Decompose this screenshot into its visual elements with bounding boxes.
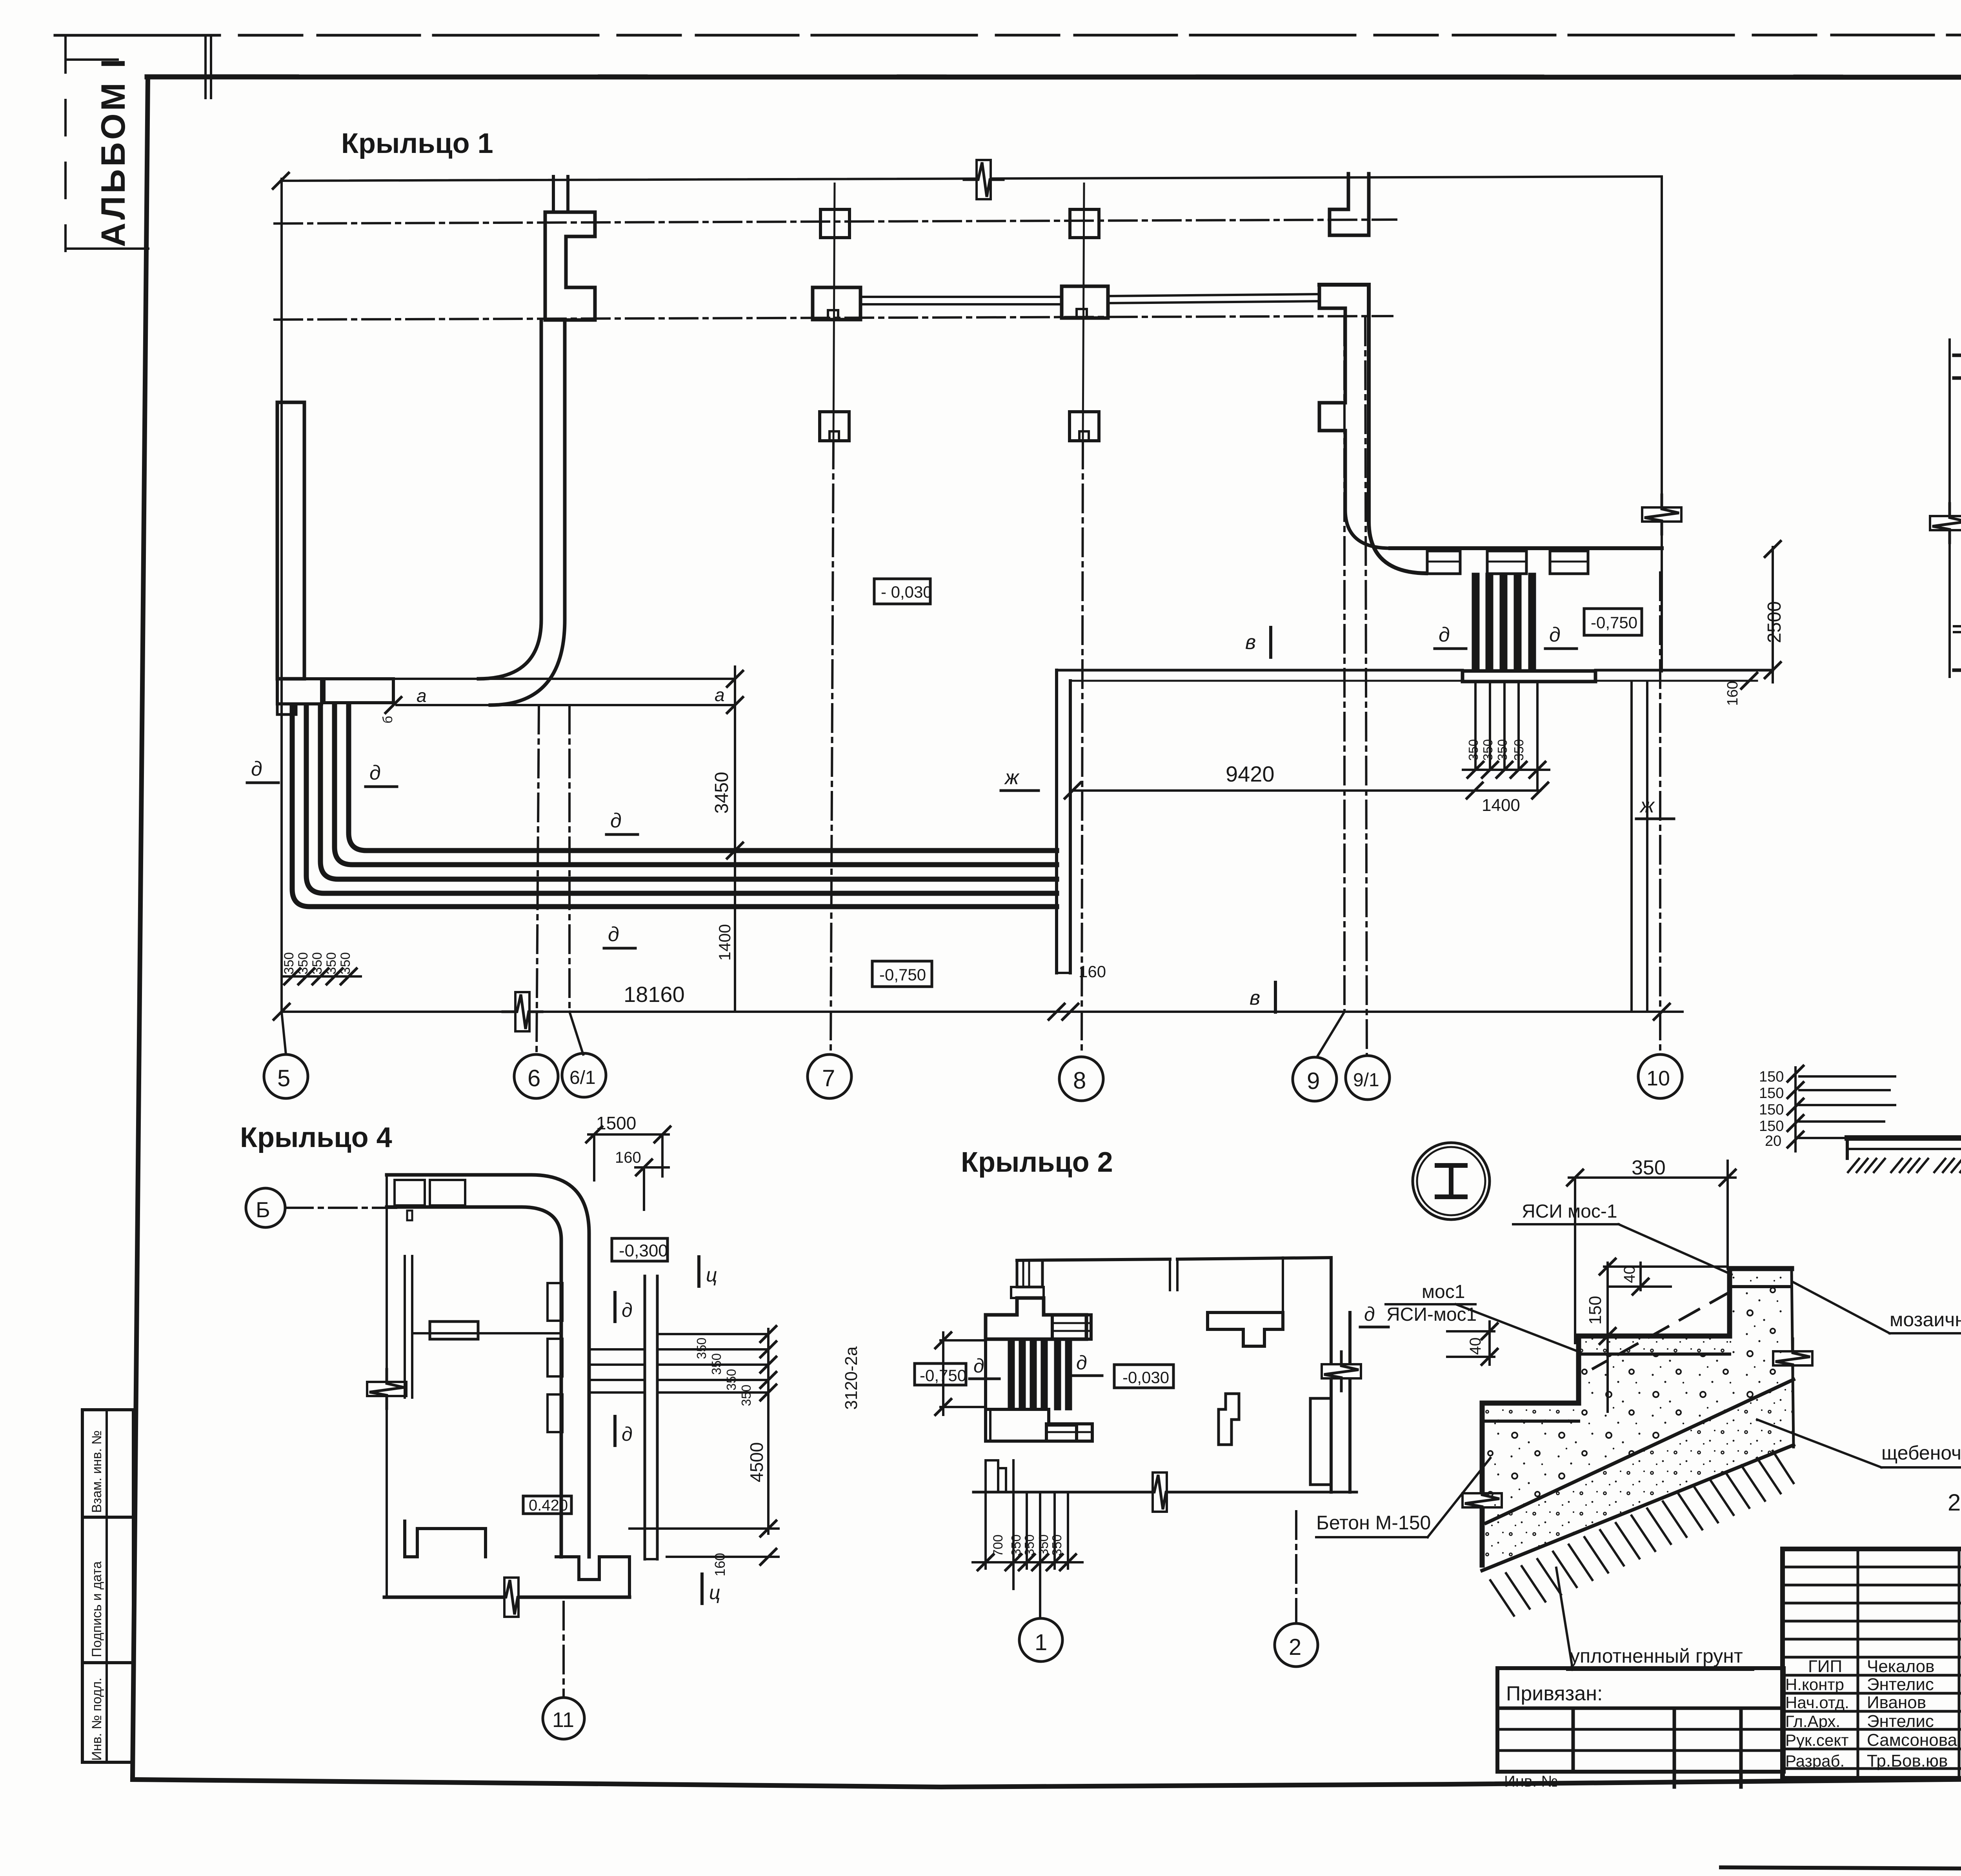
bottom wall: [384, 1596, 629, 1599]
pilaster caps on wall: [548, 1283, 562, 1321]
svg-text:1400: 1400: [715, 924, 734, 961]
svg-text:Энтелис: Энтелис: [1867, 1675, 1934, 1694]
bottom doorway shape: [556, 1557, 629, 1597]
pier on axis B top: [1330, 174, 1369, 235]
right wall vertical: [1330, 1258, 1333, 1492]
step edge line bottom: [397, 704, 735, 706]
lower-left block: [986, 1409, 1077, 1441]
soil hatch under platform: [1848, 1159, 1885, 1172]
door block: [430, 1322, 478, 1339]
svg-text:в: в: [1245, 631, 1256, 654]
svg-text:8: 8: [1073, 1067, 1086, 1094]
elevation box -0.750 right: [1584, 609, 1642, 635]
column axis8 lower: [1070, 412, 1099, 441]
frame top: [147, 77, 1961, 77]
bottom lower line: [1954, 669, 1961, 672]
svg-text:160: 160: [615, 1149, 641, 1166]
break on right line: [1642, 495, 1681, 534]
right edge: [1792, 1269, 1794, 1447]
building top outline line: [281, 176, 1662, 181]
svg-text:АЛЬБОМ I: АЛЬБОМ I: [95, 59, 132, 247]
landing slab upper: [1052, 1315, 1091, 1339]
svg-text:350: 350: [282, 952, 297, 974]
dim 150: [1606, 1263, 1609, 1412]
svg-text:д: д: [622, 1299, 633, 1321]
tick top left: [273, 173, 289, 189]
wall bottom section right: [560, 1434, 563, 1557]
svg-text:3120-2а: 3120-2а: [842, 1346, 861, 1410]
dim ext lines below: [984, 1492, 987, 1569]
svg-text:3450: 3450: [711, 772, 732, 814]
name rows: [1783, 1674, 1961, 1677]
top wall outer + curve: [387, 1175, 589, 1434]
svg-text:160: 160: [1725, 681, 1741, 706]
axis circle 10: [1638, 1054, 1682, 1098]
svg-text:350: 350: [1050, 1534, 1064, 1556]
svg-text:ж: ж: [1639, 794, 1655, 817]
axis B dash-dot: [275, 220, 1396, 224]
stair L-step 1: [292, 705, 1057, 907]
svg-text:9: 9: [1307, 1068, 1320, 1094]
svg-text:д: д: [610, 809, 622, 832]
svg-text:350: 350: [1632, 1156, 1666, 1179]
top wall line: [1017, 1259, 1170, 1260]
frame bottom: [133, 1775, 1961, 1787]
svg-text:д: д: [369, 762, 381, 784]
dim a ticks: [727, 671, 743, 687]
svg-text:-0,030: -0,030: [1122, 1368, 1169, 1387]
svg-text:700: 700: [991, 1534, 1006, 1557]
svg-text:9420: 9420: [1226, 762, 1275, 786]
concrete mass fill: [1482, 1287, 1794, 1523]
porch 350 ext lines: [1474, 682, 1477, 770]
column axis8 mid: [1062, 286, 1108, 318]
svg-text:а: а: [417, 685, 427, 706]
svg-text:Крыльцо 1: Крыльцо 1: [341, 128, 493, 159]
svg-text:160: 160: [712, 1553, 728, 1576]
elevation -0.030: [1114, 1365, 1173, 1388]
lower platform slab: [1847, 1135, 1961, 1141]
svg-text:4500: 4500: [746, 1442, 767, 1482]
elevation -0.300: [612, 1238, 668, 1261]
top wall inner + curve: [387, 1207, 561, 1434]
left wall lower part: [984, 1339, 987, 1441]
svg-text:2: 2: [1289, 1634, 1301, 1660]
beam between col7-col8: [860, 296, 1062, 298]
svg-text:д: д: [251, 758, 262, 780]
curved wall outer: [1954, 355, 1961, 574]
stair L-step 4: [335, 705, 1057, 865]
left cut line: [1948, 340, 1951, 677]
svg-text:б: б: [380, 716, 395, 723]
privyazan table: [1497, 1668, 1784, 1772]
svg-text:Б: Б: [256, 1197, 270, 1222]
axis circle 6: [514, 1054, 558, 1098]
svg-text:ц: ц: [709, 1582, 720, 1603]
column axis7 mid: [813, 287, 860, 320]
pilaster 3: [1550, 551, 1588, 574]
svg-text:Рук.сект: Рук.сект: [1785, 1731, 1849, 1749]
svg-text:д: д: [1549, 624, 1561, 646]
svg-text:150: 150: [1759, 1102, 1784, 1118]
interior partition: [404, 1256, 406, 1398]
svg-text:-0,300: -0,300: [619, 1241, 668, 1260]
svg-text:Чекалов: Чекалов: [1867, 1657, 1935, 1676]
left dim stack: [1794, 1067, 1797, 1151]
dim 40 top: [1604, 1265, 1726, 1268]
lower wing wall near axis 10: [1630, 682, 1633, 1011]
small tick below cell: [407, 1211, 412, 1220]
axis B dash-dot: [285, 1207, 396, 1209]
svg-text:Подпись и дата: Подпись и дата: [89, 1561, 104, 1657]
svg-text:350: 350: [296, 952, 311, 974]
corner pier wall axis 9: [1319, 285, 1426, 573]
svg-text:20: 20: [1765, 1133, 1781, 1149]
landing slab lower: [1046, 1424, 1092, 1441]
ts section mark upper: [697, 1257, 700, 1286]
top-right gamma block: [1208, 1312, 1283, 1346]
svg-text:350: 350: [1512, 739, 1526, 761]
ext line bottom: [629, 1527, 779, 1530]
axis 2: [1295, 1511, 1297, 1623]
svg-text:в: в: [1250, 987, 1260, 1009]
paper fold tick: [204, 37, 207, 98]
svg-text:Бетон М-150: Бетон М-150: [1316, 1512, 1431, 1534]
svg-text:150: 150: [1586, 1296, 1605, 1325]
treads: [589, 1348, 645, 1351]
level lines: [1799, 1075, 1895, 1078]
pilaster 2: [1487, 551, 1526, 574]
svg-text:350: 350: [1495, 739, 1510, 761]
wall foot hook: [277, 704, 296, 714]
svg-text:д: д: [1076, 1352, 1087, 1374]
axis circle 7: [808, 1054, 851, 1098]
svg-text:Взам. инв. №: Взам. инв. №: [89, 1430, 104, 1513]
svg-text:350: 350: [1036, 1534, 1051, 1556]
window cell 2: [430, 1180, 465, 1205]
svg-text:350: 350: [724, 1369, 739, 1391]
axis circle 8: [1059, 1057, 1103, 1101]
svg-text:6/1: 6/1: [569, 1067, 596, 1088]
stair L-step 3: [320, 705, 1057, 879]
tall west wall: [277, 402, 304, 679]
svg-text:Тр.Бов.юв: Тр.Бов.юв: [1867, 1751, 1948, 1771]
svg-text:д: д: [608, 923, 619, 946]
beam col8 to corner pier: [1108, 294, 1319, 296]
dim line 3450 vertical: [734, 667, 736, 1012]
dim 40 left: [1488, 1322, 1491, 1365]
rubble layer top: [1486, 1380, 1794, 1523]
column square axis8 upper: [1070, 209, 1099, 238]
paper edge dashed left: [64, 37, 67, 251]
axis lower dash-dot: [275, 316, 1392, 320]
lower interior wall: [405, 1521, 486, 1557]
svg-text:ц: ц: [706, 1264, 717, 1286]
svg-text:а: а: [715, 685, 725, 705]
svg-text:40: 40: [1621, 1266, 1638, 1283]
svg-text:ЯСИ мос-1: ЯСИ мос-1: [1522, 1201, 1617, 1222]
top-left pier: [1017, 1260, 1042, 1287]
svg-text:350: 350: [338, 952, 353, 974]
svg-text:-0,750: -0,750: [879, 965, 926, 984]
svg-text:ГИП: ГИП: [1808, 1657, 1842, 1676]
svg-text:350: 350: [1466, 739, 1481, 761]
svg-text:1: 1: [1035, 1630, 1047, 1655]
svg-text:160: 160: [1079, 962, 1106, 981]
stair L-step 2: [306, 705, 1057, 893]
dim 2500 right: [1772, 547, 1774, 682]
svg-text:6: 6: [528, 1065, 540, 1091]
dim 1400 porch: [1467, 783, 1483, 798]
right inner pier: [1310, 1398, 1331, 1485]
svg-text:40: 40: [1467, 1338, 1484, 1355]
svg-text:Инв. № подл.: Инв. № подл.: [89, 1678, 104, 1761]
axis 6-1 dash-dot: [568, 706, 571, 1012]
svg-text:Привязан:: Привязан:: [1506, 1682, 1603, 1705]
svg-text:350: 350: [694, 1338, 709, 1359]
axis 1: [1039, 1604, 1041, 1618]
wall axis Zh vertical: [1055, 670, 1058, 973]
step edge line top: [277, 678, 735, 680]
svg-text:- 0,030: - 0,030: [881, 583, 932, 601]
landing slab: [324, 679, 393, 703]
dim 4500 vertical line: [767, 1329, 769, 1534]
svg-text:150: 150: [1759, 1118, 1784, 1134]
porch slab bar: [1463, 671, 1595, 682]
axis circle 5: [264, 1054, 308, 1098]
svg-text:мос1: мос1: [1422, 1282, 1465, 1302]
axis circle 9: [1293, 1057, 1337, 1101]
paper edge short dash left: [65, 247, 148, 250]
rubble layer bottom: [1482, 1445, 1794, 1571]
svg-text:Крыльцо 2: Крыльцо 2: [961, 1147, 1113, 1178]
svg-text:Энтелис: Энтелис: [1867, 1712, 1934, 1731]
svg-text:2500: 2500: [1764, 601, 1785, 643]
building right outline line: [1661, 176, 1663, 671]
column square axis7 upper: [820, 209, 850, 238]
svg-text:350: 350: [709, 1353, 724, 1375]
paper edge dashed top: [55, 35, 1961, 35]
left signature grid verticals: [1857, 1549, 1859, 1778]
svg-text:мозаичный слой: мозаичный слой: [1890, 1309, 1961, 1331]
stair rails: [644, 1276, 646, 1559]
svg-text:350: 350: [1481, 739, 1495, 761]
svg-text:д: д: [622, 1423, 633, 1445]
ext lines 350 dims: [657, 1333, 768, 1335]
svg-text:Самсонова: Самсонова: [1867, 1731, 1957, 1750]
elevation 0.420: [523, 1496, 571, 1514]
wall line south: [1390, 546, 1662, 550]
platform edge lines: [1057, 669, 1463, 672]
paper edge short dash upper-left: [65, 58, 118, 61]
svg-text:1500: 1500: [596, 1113, 636, 1133]
svg-text:-0,750: -0,750: [1591, 613, 1637, 632]
bottom-left steps: [986, 1460, 998, 1492]
curved wall inner: [1954, 378, 1961, 558]
svg-text:150: 150: [1759, 1085, 1784, 1102]
svg-text:уплотненный грунт: уплотненный грунт: [1570, 1645, 1743, 1667]
stair cheek bars: [1473, 574, 1479, 672]
axis 8 dash-dot: [1083, 184, 1084, 441]
dim 9420: [1073, 789, 1540, 792]
frame left: [133, 77, 148, 1780]
svg-text:350: 350: [1009, 1534, 1023, 1556]
svg-text:-0,750: -0,750: [920, 1366, 966, 1385]
svg-text:2.Спецификация элементов крыл: 2.Спецификация элементов крылец приведе-: [1948, 1489, 1961, 1516]
stair cheek bars center: [1009, 1339, 1014, 1409]
axis 9 dash-dot: [1343, 318, 1346, 1012]
left grid horizontals empty rows: [1783, 1566, 1961, 1569]
axis 9-1 dash-dot: [1365, 318, 1367, 1055]
svg-text:д: д: [1439, 624, 1450, 646]
axis 10 dash-dot: [1659, 573, 1661, 1054]
detail circle marker: [1413, 1143, 1490, 1220]
svg-text:10: 10: [1646, 1067, 1670, 1090]
ts section mark lower: [700, 1574, 704, 1603]
column axis7 lower: [820, 412, 849, 441]
svg-text:150: 150: [1759, 1069, 1784, 1085]
soil hatching below: [1490, 1451, 1794, 1616]
axis 5 line: [280, 179, 283, 1012]
elevation -0.750: [915, 1363, 966, 1385]
axis circle 9-1: [1346, 1056, 1390, 1100]
mosaic layer lines: [1730, 1285, 1792, 1288]
dim line 18160: [282, 1011, 1683, 1013]
break on top line: [964, 160, 1003, 199]
svg-text:350: 350: [1022, 1534, 1037, 1556]
d section mark upper: [613, 1292, 617, 1322]
svg-text:18160: 18160: [624, 982, 685, 1007]
elevation box -0.030: [874, 579, 930, 604]
left cut line: [386, 1175, 388, 1597]
d section mark lower: [613, 1416, 617, 1445]
svg-text:Гл.Арх.: Гл.Арх.: [1785, 1712, 1840, 1731]
left stamp boxes: [82, 1410, 133, 1762]
window cell 1: [395, 1180, 425, 1205]
svg-text:ж: ж: [1004, 766, 1020, 789]
svg-text:9/1: 9/1: [1353, 1070, 1379, 1091]
svg-text:7: 7: [822, 1065, 835, 1091]
svg-text:Крыльцо 4: Крыльцо 4: [240, 1122, 392, 1153]
svg-text:5: 5: [277, 1065, 290, 1091]
svg-text:350: 350: [324, 952, 339, 974]
bottom wall double line: [1954, 625, 1961, 627]
elevation box -0.750 lower: [872, 961, 932, 987]
axis 11: [562, 1602, 565, 1697]
svg-text:350: 350: [310, 952, 325, 974]
small center pier: [1219, 1394, 1239, 1445]
axis circle 6-1: [562, 1053, 606, 1097]
dashed internal line: [1593, 1292, 1730, 1369]
bottom paper shadow line: [1721, 1867, 1961, 1869]
left gamma wall: [986, 1298, 1086, 1339]
door line: [412, 1332, 561, 1334]
curved wall outer arc: [490, 320, 565, 705]
svg-text:д: д: [1364, 1303, 1375, 1325]
svg-text:Н.контр: Н.контр: [1785, 1675, 1844, 1694]
svg-text:Инв. №: Инв. №: [1504, 1773, 1558, 1790]
wall footing block: [277, 679, 322, 704]
dim 3120-2a: [940, 1339, 986, 1342]
svg-text:Иванов: Иванов: [1867, 1693, 1926, 1712]
pilaster 1: [1427, 551, 1460, 574]
svg-text:1400: 1400: [1482, 796, 1520, 815]
dim 350 ticks bottom-left: [284, 969, 300, 984]
svg-text:д: д: [973, 1355, 984, 1377]
svg-text:Нач.отд.: Нач.отд.: [1785, 1693, 1849, 1712]
F-pier axis 6 area: [545, 212, 595, 320]
svg-text:350: 350: [739, 1385, 753, 1406]
svg-text:11: 11: [552, 1708, 574, 1732]
bottom line: [973, 1491, 1357, 1494]
svg-text:Разраб.: Разраб.: [1785, 1752, 1845, 1770]
svg-text:щебеночная подготовка: щебеночная подготовка: [1881, 1442, 1961, 1464]
axis 6 dash-dot: [537, 706, 539, 1054]
stair L-step 5: [349, 705, 1057, 851]
axis 7 dash-dot: [833, 184, 835, 441]
axis B circle: [246, 1188, 285, 1227]
curved wall inner arc: [478, 320, 541, 679]
step profile: [1482, 1269, 1792, 1565]
